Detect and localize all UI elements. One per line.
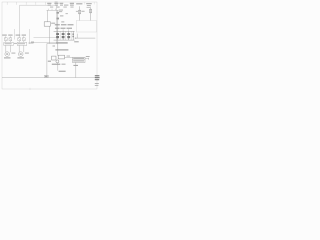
wire (main horizontal rail N) — [34, 36, 96, 39]
terminal strip TB1 rail — [47, 9, 59, 11]
relay bank caption — [56, 42, 67, 43]
relay CR1 — [44, 22, 55, 26]
control box L2 — [58, 55, 64, 59]
wire (stub from junction box to rail) — [74, 34, 79, 43]
wire (CR1 down and over to bus) — [49, 26, 51, 43]
indicator circle P1 — [56, 60, 59, 63]
wire (bus lower segment) — [53, 40, 58, 56]
relay coil K2 — [62, 31, 65, 40]
motor starter group M1 — [2, 35, 17, 59]
wire (main vertical bus) — [57, 10, 68, 32]
enclosure box (control panel outline) — [20, 5, 57, 42]
relay coil K1 — [56, 31, 59, 40]
fuse F2 — [86, 3, 92, 20]
junction box (right enclosure) — [76, 21, 96, 32]
wire (TB2 out right) — [85, 56, 90, 60]
wire (long bottom rail) — [2, 77, 96, 79]
relay bank labels — [55, 24, 74, 28]
control box L1 — [52, 56, 56, 60]
relay coil K4 — [72, 31, 74, 40]
control module caption — [55, 49, 68, 50]
terminal strip TB1 labels — [47, 2, 74, 8]
wire (branch left and down to bottom rail) — [47, 44, 58, 78]
wire (cluster M2 stub) — [14, 29, 34, 44]
wire (drop from P1 down) — [58, 63, 66, 72]
relay bank bus bars — [54, 29, 75, 40]
node label on bottom rail — [44, 75, 48, 77]
wire (drop from TB2 down to bottom rail) — [75, 62, 77, 77]
lower cluster captions — [52, 64, 78, 66]
relay coil K3 — [67, 31, 70, 40]
title block text — [95, 75, 100, 86]
motor starter group M2 — [16, 35, 29, 59]
fuse F1 — [76, 3, 85, 20]
terminal block TB2 — [72, 57, 85, 62]
wire (feeder drop to CR box) — [46, 10, 48, 21]
wire (L2 to terminal block) — [65, 56, 73, 58]
